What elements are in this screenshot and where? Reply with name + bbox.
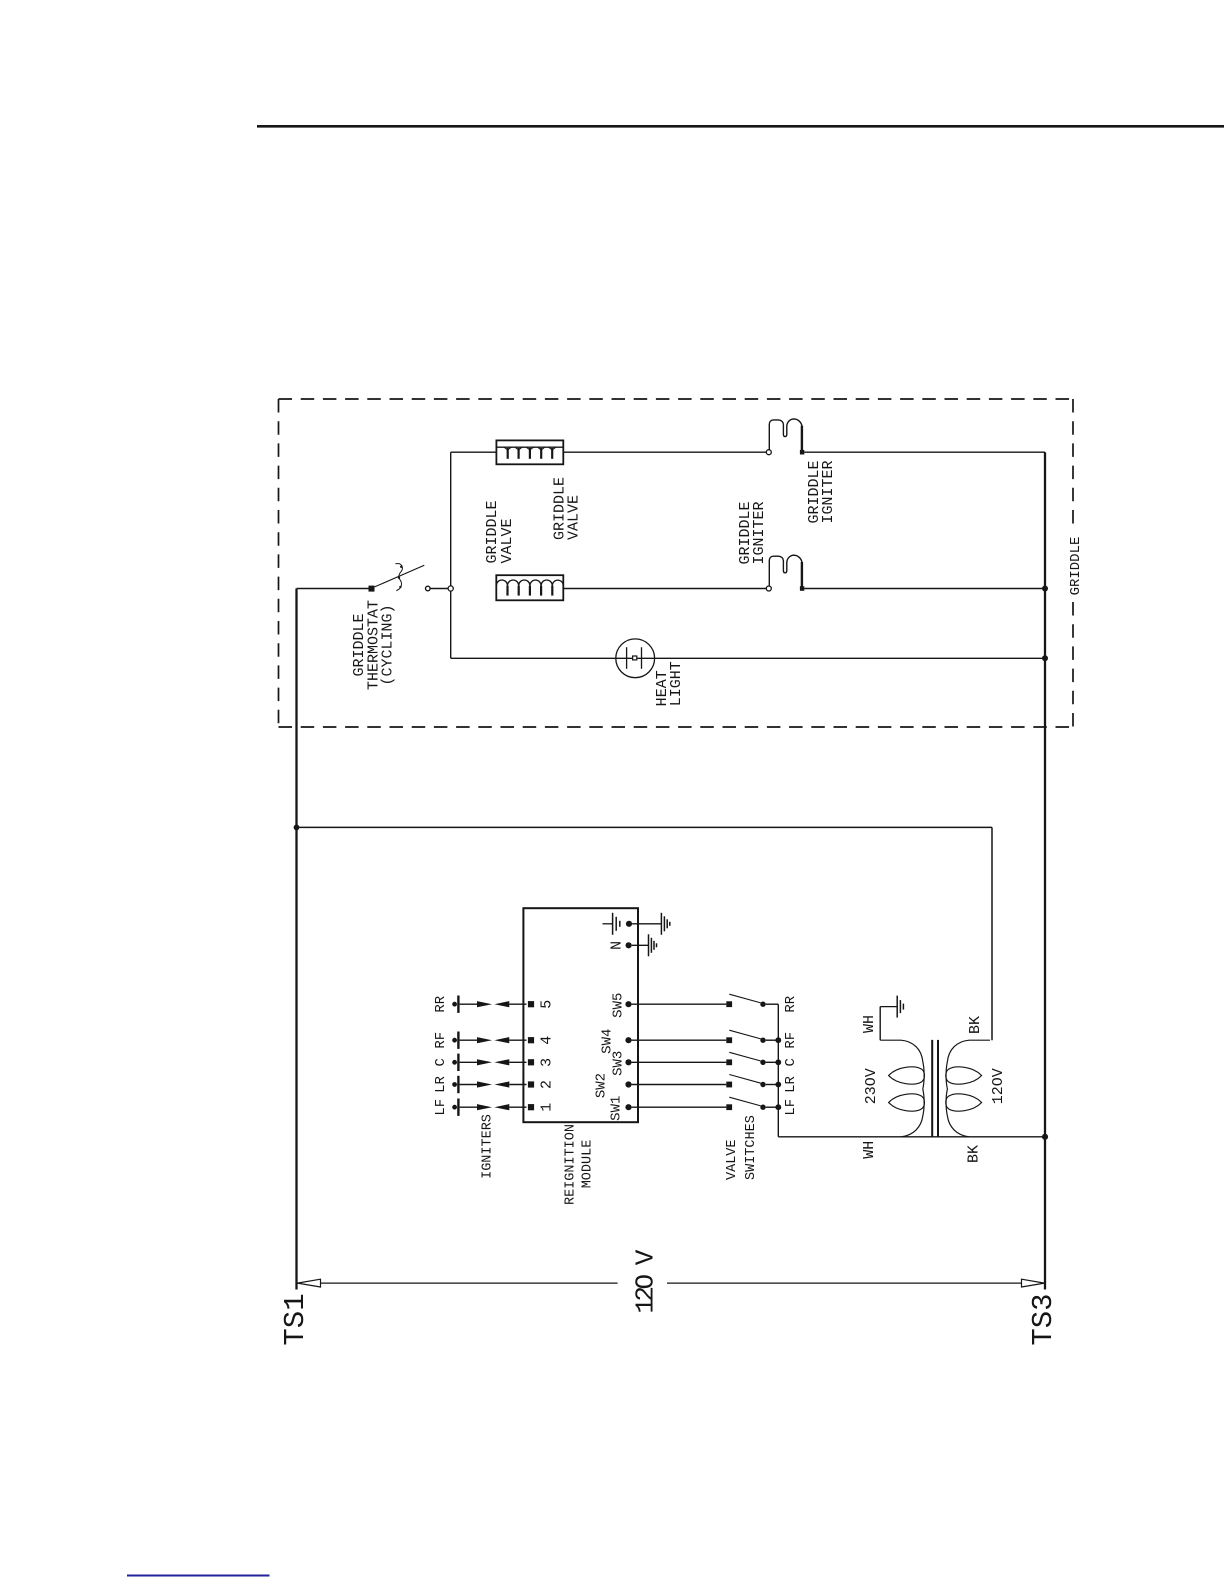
svg-text:RF: RF [783,1032,799,1049]
svg-text:SWITCHES: SWITCHES [744,1115,759,1180]
svg-text:VALVE: VALVE [499,518,516,563]
svg-text:LR: LR [433,1076,449,1093]
svg-text:TS3: TS3 [1027,1293,1060,1345]
svg-text:C: C [783,1058,799,1066]
svg-text:BK: BK [967,1016,984,1034]
svg-text:3: 3 [539,1058,556,1067]
svg-text:RR: RR [433,995,449,1012]
svg-text:N: N [609,941,626,950]
svg-text:SW5: SW5 [610,993,626,1018]
svg-text:C: C [433,1058,449,1066]
svg-text:LIGHT: LIGHT [668,661,685,706]
svg-text:12OV: 12OV [990,1068,1007,1104]
svg-text:WH: WH [861,1141,878,1159]
svg-text:RR: RR [783,995,799,1012]
svg-text:IGNITER: IGNITER [820,460,837,523]
svg-text:WH: WH [861,1015,878,1033]
svg-text:BK: BK [966,1145,983,1163]
svg-text:(CYCLING): (CYCLING) [380,604,397,685]
svg-text:SW4: SW4 [599,1029,615,1054]
svg-text:TS1: TS1 [279,1293,312,1345]
svg-text:REIGNITION: REIGNITION [563,1124,578,1205]
svg-text:IGNITERS: IGNITERS [481,1114,496,1179]
svg-text:4: 4 [539,1036,556,1045]
svg-text:LF: LF [783,1099,799,1116]
svg-text:SW1: SW1 [609,1096,625,1121]
svg-text:IGNITER: IGNITER [751,501,768,564]
svg-text:2: 2 [539,1080,556,1089]
svg-text:RF: RF [433,1032,449,1049]
svg-text:SW3: SW3 [610,1051,626,1076]
svg-text:5: 5 [539,1000,556,1009]
svg-text:12O V: 12O V [631,1249,661,1313]
svg-text:23OV: 23OV [863,1068,880,1104]
svg-text:1: 1 [539,1103,556,1112]
svg-text:GRIDDLE: GRIDDLE [1068,537,1084,596]
svg-text:LR: LR [783,1076,799,1093]
svg-text:MODULE: MODULE [580,1140,595,1189]
svg-text:VALVE: VALVE [566,495,583,540]
svg-text:LF: LF [433,1099,449,1116]
svg-text:SW2: SW2 [594,1073,610,1098]
svg-text:VALVE: VALVE [725,1139,740,1180]
